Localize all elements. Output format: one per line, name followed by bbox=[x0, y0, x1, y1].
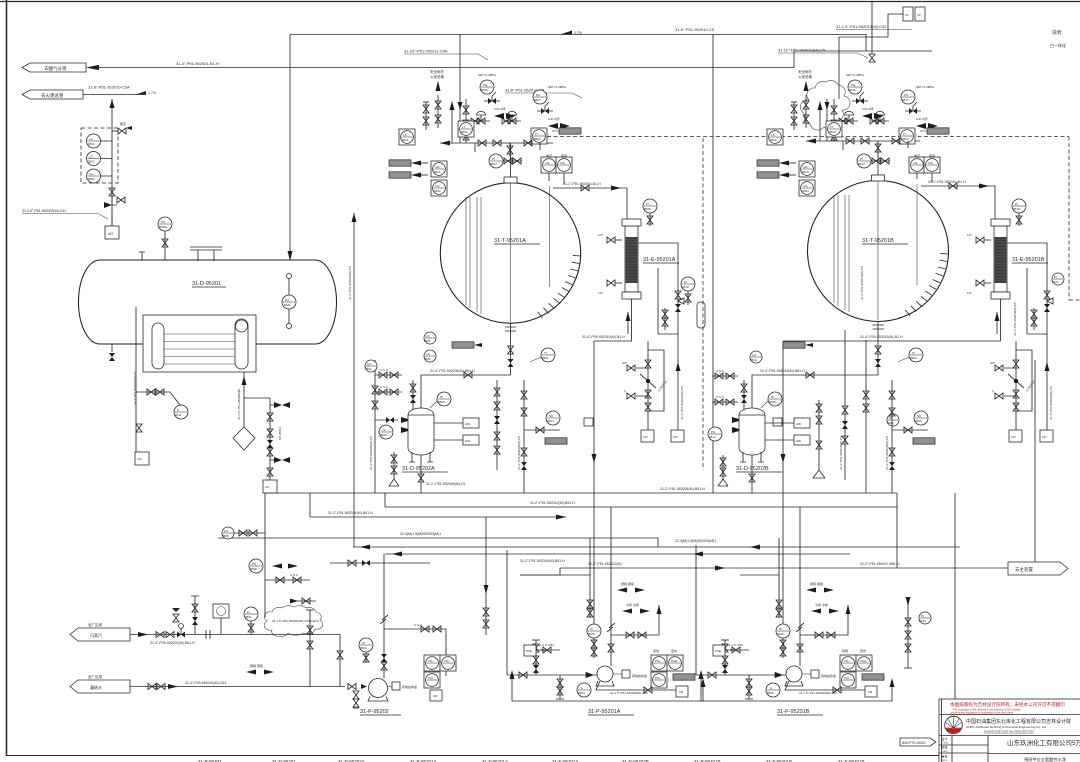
valves below PG bbox=[265, 573, 310, 583]
svg-text:LPI: LPI bbox=[265, 485, 270, 489]
pipe label 31-0.5"-P51-952002(M)-C51 bbox=[22, 209, 108, 219]
svg-text:1/2": 1/2" bbox=[598, 291, 603, 295]
svg-text:LT: LT bbox=[535, 132, 538, 136]
C.S.C valve pair drum B upper bbox=[712, 369, 738, 379]
utility arrow box B2 bbox=[757, 172, 796, 178]
label 31-D-95202B bbox=[736, 466, 782, 472]
svg-text:9510: 9510 bbox=[682, 285, 689, 289]
svg-text:LG: LG bbox=[89, 155, 94, 159]
svg-text:C.S.C: C.S.C bbox=[290, 573, 299, 577]
svg-text:中国石油集团东北炼化工程有限公司吉林设计院: 中国石油集团东北炼化工程有限公司吉林设计院 bbox=[966, 718, 1071, 725]
svg-text:火炬总管: 火炬总管 bbox=[430, 74, 444, 79]
control valve station PV95004 bbox=[870, 111, 889, 124]
instrument circle mid B bbox=[887, 414, 899, 426]
control valve station PV95003 bbox=[839, 111, 858, 124]
label 31-P-95201B bbox=[777, 709, 823, 715]
instrument PI 95022 bbox=[1052, 273, 1064, 285]
svg-text:放空: 放空 bbox=[120, 121, 126, 126]
drain leg from cooling loop B bbox=[1045, 330, 1054, 430]
svg-text:9502: 9502 bbox=[88, 160, 95, 164]
svg-text:SET=1.0MPa: SET=1.0MPa bbox=[478, 73, 496, 77]
instrument PG 95017 bbox=[901, 85, 934, 104]
label 31-P-95202 bbox=[360, 709, 401, 715]
svg-text:X2: X2 bbox=[917, 13, 921, 17]
svg-text:保温: 保温 bbox=[561, 153, 567, 158]
svg-text:9503: 9503 bbox=[490, 162, 497, 166]
svg-text:31-4(M)1.5(M)952003(M)1: 31-4(M)1.5(M)952003(M)1 bbox=[400, 532, 441, 536]
svg-text:冷却 冷却: 冷却 冷却 bbox=[815, 602, 828, 607]
svg-text:31-1"-P51-952021(M)-C5: 31-1"-P51-952021(M)-C5 bbox=[1049, 386, 1053, 420]
off-page flag 去主装置 bbox=[1008, 562, 1068, 575]
label 31-10"-P51-952010-C5 leader bbox=[778, 48, 868, 59]
svg-text:LG: LG bbox=[382, 428, 387, 432]
svg-text:31-10"-P51-952010(M)-C5: 31-10"-P51-952010(M)-C5 bbox=[778, 48, 826, 53]
svg-text:31-2"-P51-952013(M)-C5: 31-2"-P51-952013(M)-C5 bbox=[860, 266, 864, 300]
svg-text:CB: CB bbox=[679, 690, 683, 694]
blowdown stack below exchanger A bbox=[645, 341, 651, 430]
gauge square P1a bbox=[424, 655, 440, 671]
label 31-1.5"-P51-952013(M)-C51 bbox=[836, 24, 912, 30]
instrument LG 95004B bbox=[750, 351, 762, 363]
gauge square P3c bbox=[840, 672, 856, 688]
drain tees under collector A bbox=[475, 143, 540, 156]
labels above gauges P3 bbox=[842, 648, 866, 653]
sample cooler instrument SC bbox=[546, 411, 560, 425]
small box start pump2 bbox=[613, 670, 647, 678]
utility box LPI bbox=[263, 480, 277, 493]
svg-text:31-1.5"-P51-952008(M): 31-1.5"-P51-952008(M) bbox=[237, 389, 241, 420]
svg-text:31-2"-P51-952014(M)-B51-H: 31-2"-P51-952014(M)-B51-H bbox=[328, 511, 373, 515]
frame left border bbox=[6, 0, 8, 756]
label 31-D-95202A bbox=[402, 466, 448, 472]
tank A feed drop bbox=[440, 99, 553, 146]
instrument circle small mid A bbox=[424, 332, 436, 344]
utility box AG bbox=[105, 212, 119, 239]
taps from recorders to tank top bbox=[549, 173, 564, 184]
annotation label box pump2 bbox=[673, 674, 695, 680]
svg-text:9517: 9517 bbox=[902, 98, 909, 102]
tank 31-T-95201B shell bbox=[808, 181, 949, 322]
svg-text:9505: 9505 bbox=[915, 419, 922, 423]
header line y493 bbox=[265, 492, 897, 494]
drain valve below gauges bbox=[109, 188, 125, 205]
drop aux pump2 bbox=[520, 538, 590, 598]
internal right pipe B bbox=[916, 184, 918, 285]
svg-text:9502: 9502 bbox=[910, 356, 917, 360]
exchanger B side vent valve bbox=[967, 233, 991, 243]
svg-text:31-1.5"-P51-952009(M)-C53: 31-1.5"-P51-952009(M)-C53 bbox=[799, 691, 837, 695]
header label 31-10"-P51-952011-C5A bbox=[404, 49, 488, 61]
svg-text:9501: 9501 bbox=[424, 339, 431, 343]
gray label box left of drum B bbox=[783, 342, 813, 348]
svg-text:1/2": 1/2" bbox=[967, 233, 972, 237]
svg-text:3/4": 3/4" bbox=[990, 361, 995, 365]
svg-text:冷却 冷却: 冷却 冷却 bbox=[626, 602, 639, 607]
minimum flow line pump2 bbox=[611, 605, 662, 638]
control valve station PV95002 bbox=[502, 111, 521, 124]
filter capsule A bbox=[697, 302, 705, 328]
svg-text:9504: 9504 bbox=[578, 691, 585, 695]
svg-text:9505: 9505 bbox=[222, 534, 229, 538]
minimum flow line pump3 bbox=[800, 605, 851, 638]
orifice flanges on steam line bbox=[206, 630, 210, 639]
bowtie pair on loop A bbox=[662, 308, 668, 330]
svg-text:CB: CB bbox=[433, 694, 437, 698]
internal heater bundle outline bbox=[143, 315, 256, 372]
up arrow into exchanger A bottom bbox=[626, 312, 631, 334]
gauge square P1b bbox=[440, 655, 456, 671]
title table verticals bbox=[952, 736, 988, 762]
svg-text:C.S.C: C.S.C bbox=[380, 368, 389, 372]
level switch square LS B bbox=[767, 129, 783, 145]
pump 31-P-95201B bbox=[785, 666, 803, 686]
flow arrows annotation pump2 bbox=[622, 602, 650, 614]
svg-text:就地: 就地 bbox=[653, 648, 659, 653]
svg-text:就地启停盘: 就地启停盘 bbox=[402, 684, 417, 689]
svg-text:A: A bbox=[581, 686, 583, 690]
pipe from 去火炬总管 flag bbox=[83, 94, 146, 96]
gauge square P2c bbox=[651, 672, 667, 688]
suction valve pump2 bbox=[519, 672, 527, 678]
svg-text:PI: PI bbox=[860, 157, 863, 161]
top-right utility boxes bbox=[888, 7, 925, 37]
svg-text:9501: 9501 bbox=[88, 142, 95, 146]
svg-text:9501: 9501 bbox=[245, 615, 252, 619]
svg-text:校核: 校核 bbox=[942, 745, 948, 750]
svg-text:PG: PG bbox=[252, 562, 257, 566]
utility box CB pump2 bbox=[676, 686, 688, 697]
drop from y550 to pump2 suction bbox=[506, 550, 508, 675]
riser left of pump1 bbox=[307, 610, 319, 687]
frame top border bbox=[0, 1, 1080, 3]
svg-text:31-4"-P51-952004(M)-B51-H: 31-4"-P51-952004(M)-B51-H bbox=[430, 369, 475, 373]
valve on condensate line bbox=[148, 684, 165, 690]
gauge square P2b bbox=[667, 655, 683, 671]
main vapour header bbox=[290, 35, 866, 52]
instrument PI 95009B bbox=[776, 624, 790, 658]
svg-text:闪蒸汽: 闪蒸汽 bbox=[90, 632, 102, 638]
svg-text:LIA: LIA bbox=[435, 165, 440, 169]
mid cluster left of tank A column bbox=[352, 213, 357, 547]
svg-text:LIA: LIA bbox=[435, 184, 440, 188]
exchanger A cooling water loop bbox=[638, 243, 678, 345]
svg-text:PI: PI bbox=[779, 627, 782, 631]
instrument PI 95005A bbox=[430, 392, 451, 408]
svg-text:31-P-95202: 31-P-95202 bbox=[360, 709, 389, 715]
label 31-E-95201B bbox=[1012, 257, 1048, 263]
bundle tubes bbox=[164, 334, 235, 364]
black flow arrows annotation A1 bbox=[494, 106, 516, 119]
small horizontal jog y563 bbox=[330, 562, 430, 564]
svg-text:9501: 9501 bbox=[284, 303, 291, 307]
svg-text:31-6"-P51-952010-C5A: 31-6"-P51-952010-C5A bbox=[88, 85, 130, 90]
tee cap riser bbox=[306, 609, 314, 611]
svg-text:31-4"-P09-952010(M)-B1-H: 31-4"-P09-952010(M)-B1-H bbox=[582, 335, 625, 339]
taps from recorders to tank top B bbox=[917, 173, 932, 182]
tank B feed drop bbox=[806, 99, 920, 144]
suction header into pump2 bbox=[507, 674, 597, 676]
svg-text:PIA: PIA bbox=[655, 659, 660, 663]
instrument PI 95009A bbox=[587, 624, 601, 658]
svg-text:PI: PI bbox=[684, 280, 687, 284]
black arrow pair annotation mid bottom bbox=[246, 663, 274, 675]
insulation hatch on lower-right shell B bbox=[905, 253, 948, 316]
svg-text:HW: HW bbox=[465, 422, 470, 426]
recirculation riser left pump3 bbox=[699, 670, 895, 701]
exchanger B top channel bbox=[991, 219, 1010, 226]
instrument PG mid left bbox=[249, 559, 263, 573]
pump1 warm-up branch bbox=[384, 623, 446, 676]
svg-text:3/4": 3/4" bbox=[622, 361, 627, 365]
svg-text:CS1.5闭: CS1.5闭 bbox=[862, 106, 873, 111]
signal dashed enclosure B right bbox=[1069, 137, 1080, 301]
bundle U-bend cap bbox=[235, 319, 248, 369]
relief valve PSV B1 bbox=[852, 92, 868, 104]
flow display box FQ bbox=[213, 604, 229, 635]
instrument PI 95003 bbox=[489, 154, 503, 168]
svg-text:9506: 9506 bbox=[481, 88, 488, 92]
strainer small cluster left pump3 bbox=[721, 640, 735, 675]
bypass riser with arrow bbox=[450, 101, 455, 143]
check valve pump2 bbox=[586, 672, 594, 678]
mid vertical second bbox=[374, 360, 376, 493]
svg-text:PSH: PSH bbox=[671, 659, 677, 663]
svg-text:1/2": 1/2" bbox=[314, 619, 319, 623]
svg-text:31-D-95201: 31-D-95201 bbox=[192, 281, 221, 287]
off-page flag 闪蒸汽 bbox=[70, 622, 130, 641]
transmitter square LT 95002 bbox=[531, 128, 547, 144]
manway flange on drum top bbox=[190, 247, 222, 261]
valve stack on feed riser bbox=[463, 99, 469, 143]
svg-text:LT: LT bbox=[462, 125, 465, 129]
drain leg from cooling loop A bbox=[676, 345, 685, 430]
vertical x955 loop bbox=[954, 493, 956, 701]
svg-text:LT: LT bbox=[903, 132, 906, 136]
strainer leg below drum B bbox=[718, 455, 728, 486]
svg-text:LG: LG bbox=[89, 172, 94, 176]
black flow arrows annotation B2 bbox=[916, 116, 938, 129]
svg-text:9502: 9502 bbox=[770, 138, 777, 142]
divider under copyright bbox=[939, 714, 1080, 716]
label 31-P-95201A bbox=[588, 709, 634, 715]
strainer small cluster left pump2 bbox=[532, 640, 546, 675]
svg-text:LG: LG bbox=[426, 352, 431, 356]
transmitter square LT 95004 bbox=[899, 128, 915, 144]
svg-text:LPI: LPI bbox=[1042, 435, 1047, 439]
utility box LPI A1 bbox=[641, 430, 654, 442]
instrument LG 95002 bbox=[87, 152, 101, 166]
svg-text:审核: 审核 bbox=[942, 754, 948, 759]
instrument PI 95008 bbox=[643, 199, 657, 226]
side stub valves B bbox=[990, 361, 1016, 399]
svg-text:LIA: LIA bbox=[545, 161, 550, 165]
svg-text:就地: 就地 bbox=[842, 648, 848, 653]
panel light square LIA 95004 bbox=[799, 180, 815, 196]
black stub valve upper bbox=[270, 402, 290, 408]
svg-text:PIA: PIA bbox=[428, 676, 433, 680]
drain duo below suction pump2 bbox=[556, 675, 564, 699]
annotation label box B bbox=[927, 128, 949, 134]
relief valve PSV A2 bbox=[537, 102, 553, 114]
svg-text:说明:: 说明: bbox=[1052, 29, 1062, 36]
instrument A 95004 bbox=[577, 683, 591, 697]
condensate line from flag bbox=[130, 684, 345, 689]
svg-text:PI: PI bbox=[1015, 202, 1018, 206]
strainer leg left of drum A bbox=[389, 452, 399, 486]
pressure box PSE pump3 bbox=[713, 643, 749, 656]
level box LIS bbox=[135, 452, 149, 465]
exchanger A side drain valve bbox=[598, 280, 622, 295]
svg-text:31-1"-P51-952011(M)-C5: 31-1"-P51-952011(M)-C5 bbox=[680, 386, 684, 420]
relief riser 安全阀去火炬 bbox=[430, 69, 444, 128]
sight glass box GW A1 bbox=[463, 418, 479, 428]
svg-text:C.S.C: C.S.C bbox=[414, 623, 423, 627]
pump2 discharge riser bbox=[607, 594, 615, 666]
valve pair right of PI B bbox=[871, 158, 890, 164]
svg-text:31-T-95201A: 31-T-95201A bbox=[494, 238, 526, 244]
arrow on y545 segment bbox=[750, 545, 760, 550]
svg-text:LS: LS bbox=[771, 133, 775, 137]
valve stack on drain bbox=[267, 413, 273, 476]
seal flush line pump2 bbox=[596, 681, 676, 695]
vessel 31-D-95201 bbox=[79, 260, 337, 344]
internal center pipe B bbox=[877, 181, 879, 320]
label 31-T-95201B bbox=[862, 238, 908, 244]
instrument PG 95007 bbox=[533, 85, 566, 104]
instrument LG 95001 bbox=[87, 134, 101, 148]
svg-text:B28-P70-00001: B28-P70-00001 bbox=[902, 741, 926, 745]
steam line from flag bbox=[130, 632, 340, 637]
svg-text:31-E-95201B: 31-E-95201B bbox=[1012, 257, 1045, 263]
company logo bbox=[945, 716, 963, 734]
valve on vapour line B bbox=[949, 183, 957, 189]
check valve pump3 bbox=[775, 672, 783, 678]
tank A bottom outlet bbox=[505, 323, 516, 375]
instrument PI 95010 bbox=[681, 277, 695, 305]
valve on mid vertical bbox=[372, 386, 378, 409]
svg-text:PG: PG bbox=[851, 83, 856, 87]
svg-text:HW: HW bbox=[796, 422, 801, 426]
utility arrow box B1 bbox=[757, 160, 796, 166]
svg-text:9502: 9502 bbox=[360, 646, 367, 650]
divider under company bbox=[939, 735, 1080, 737]
signal dashed line to B side bbox=[547, 136, 1069, 138]
utility box LPI A2 bbox=[671, 430, 684, 442]
svg-text:9505: 9505 bbox=[769, 400, 776, 404]
svg-text:A: A bbox=[770, 686, 772, 690]
label 31-D-95201 bbox=[192, 281, 226, 287]
svg-text:LT: LT bbox=[830, 125, 833, 129]
svg-text:31-1.5"-P51-952008(M)-C53: 31-1.5"-P51-952008(M)-C53 bbox=[610, 691, 648, 695]
gray label box left of drum A bbox=[452, 342, 482, 348]
relief riser B 安全阀去火炬 bbox=[798, 69, 812, 128]
svg-text:31-2"-P51-952016(M)-B51-H: 31-2"-P51-952016(M)-B51-H bbox=[520, 559, 565, 563]
svg-text:9503: 9503 bbox=[829, 130, 836, 134]
svg-text:去主装置: 去主装置 bbox=[1015, 566, 1033, 573]
svg-text:阀组 阀组: 阀组 阀组 bbox=[810, 581, 823, 586]
tank B top nozzle bbox=[872, 141, 885, 181]
panel light square LIA 95003 bbox=[799, 161, 815, 177]
suction valve pump1 bbox=[348, 684, 367, 690]
svg-text:SET=1.0MPa: SET=1.0MPa bbox=[548, 85, 566, 89]
drop to tank B area bbox=[712, 35, 714, 494]
sample box on suction line B bbox=[773, 418, 782, 426]
svg-text:9509: 9509 bbox=[588, 632, 595, 636]
svg-text:9504: 9504 bbox=[802, 189, 809, 193]
instrument LG 95002A bbox=[424, 350, 436, 362]
svg-text:LG: LG bbox=[367, 362, 372, 366]
bypass diagonal with restriction B bbox=[1008, 374, 1036, 393]
svg-text:PSE: PSE bbox=[526, 649, 532, 653]
svg-text:9505: 9505 bbox=[767, 691, 774, 695]
exchanger B cooling water loop bbox=[1007, 243, 1047, 334]
suction riser pump1 bbox=[337, 635, 343, 687]
black drain valve pair left bbox=[375, 417, 398, 423]
valve on left drop bbox=[136, 424, 142, 432]
utility box CB pump1 bbox=[430, 690, 442, 701]
svg-text:9501: 9501 bbox=[461, 130, 468, 134]
title block border bbox=[939, 699, 1080, 762]
svg-text:31-E-95201A: 31-E-95201A bbox=[643, 257, 676, 263]
mid vertical B2 bbox=[863, 340, 869, 493]
svg-text:31-1.5"-P51-952013(M)-C51: 31-1.5"-P51-952013(M)-C51 bbox=[836, 24, 887, 29]
bypass diagonal with restriction A bbox=[640, 374, 668, 393]
drum 31-D-95202A bbox=[408, 408, 434, 455]
control valve with positioner A bbox=[675, 291, 684, 312]
valve on drum B inlet bbox=[806, 372, 814, 378]
svg-text:PI: PI bbox=[771, 395, 774, 399]
drum 31-D-95202B bbox=[739, 408, 765, 455]
frame bottom border bbox=[7, 755, 940, 757]
trap diamond bbox=[233, 427, 255, 450]
svg-text:31-4"-P09-952011(M)-B1-H: 31-4"-P09-952011(M)-B1-H bbox=[860, 335, 903, 339]
tank A top nozzle bbox=[504, 143, 517, 183]
svg-text:9508: 9508 bbox=[644, 207, 651, 211]
svg-text:95001: 95001 bbox=[159, 225, 168, 229]
svg-text:31-1.5"-P51: 31-1.5"-P51 bbox=[727, 643, 743, 647]
black stub valve lower bbox=[270, 457, 290, 463]
bundle left tubesheet bbox=[152, 323, 164, 369]
svg-text:31-2"-P51-952004(M)-B51-H: 31-2"-P51-952004(M)-B51-H bbox=[660, 487, 705, 491]
arrowhead into flag bbox=[86, 65, 99, 70]
svg-text:9504: 9504 bbox=[750, 358, 757, 362]
valves on collector line B bbox=[846, 138, 900, 144]
svg-text:31-1.5"-P51: 31-1.5"-P51 bbox=[538, 643, 554, 647]
steam trap line from bundle bbox=[243, 372, 245, 427]
off-page flag 凝结水 bbox=[70, 674, 130, 693]
svg-text:LIA: LIA bbox=[803, 165, 808, 169]
svg-text:DSGN: DSGN bbox=[942, 743, 949, 745]
svg-text:PI: PI bbox=[889, 416, 892, 420]
exchanger B side drain valve bbox=[967, 280, 991, 295]
drop aux pump3 bbox=[740, 538, 779, 598]
svg-text:PG: PG bbox=[904, 93, 909, 97]
svg-text:PG: PG bbox=[161, 220, 166, 224]
svg-text:1": 1" bbox=[992, 389, 995, 393]
svg-text:室内: 室内 bbox=[671, 648, 677, 653]
svg-text:9504: 9504 bbox=[902, 137, 909, 141]
drum bottom drain boot bbox=[109, 344, 115, 361]
utility box CB pump3 bbox=[865, 686, 877, 697]
tank B bottom outlet bbox=[873, 321, 885, 375]
utility label box mid A bbox=[545, 438, 567, 444]
svg-text:31-2"-P51-952006(M)-C5: 31-2"-P51-952006(M)-C5 bbox=[517, 436, 521, 470]
vertical x1035 to product line bbox=[1034, 360, 1036, 568]
svg-text:PI: PI bbox=[921, 614, 924, 618]
instrument PG 95014 bbox=[708, 427, 722, 441]
pump1 discharge riser bbox=[380, 554, 388, 679]
instrument LG 95003 bbox=[87, 169, 101, 183]
